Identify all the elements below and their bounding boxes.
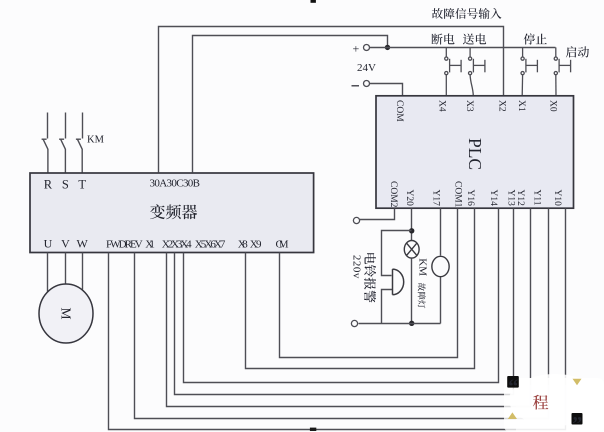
label 故障灯 (fault lamp): [418, 283, 426, 291]
pushbutton 送电 (power on) to X3: [469, 47, 485, 95]
svg-text:Y13: Y13: [506, 190, 516, 207]
wire +24V rail to buttons: [370, 47, 556, 49]
pushbutton 启动 (start) to X0: [554, 47, 570, 95]
svg-text:Y11: Y11: [531, 190, 541, 206]
label 电铃报警 (bell alarm): [365, 253, 376, 264]
svg-text:+: +: [353, 42, 360, 56]
svg-text:COM: COM: [394, 100, 404, 122]
watermark white blob: [504, 378, 604, 432]
wire FWD to Y10: [109, 209, 566, 430]
svg-text:PLC: PLC: [465, 138, 485, 170]
svg-text:X2X3X4: X2X3X4: [162, 239, 192, 251]
svg-text:Y20: Y20: [404, 190, 414, 207]
wire COM2 to 220v terminal: [360, 209, 395, 220]
svg-text:COM2: COM2: [388, 181, 398, 208]
node junction dot on +24V rail: [385, 45, 390, 50]
wire bottom rail: [359, 323, 441, 325]
label 变频器 (inverter): [150, 204, 165, 219]
wire X8 to Y16: [246, 209, 475, 369]
wire X3 to Y13: [175, 209, 514, 395]
svg-text:X9: X9: [250, 239, 262, 251]
watermark 程: [533, 395, 548, 410]
svg-text:X2: X2: [497, 100, 507, 112]
svg-text:U: U: [44, 237, 53, 251]
wire Y20 to lamp: [411, 209, 413, 241]
svg-text:Y10: Y10: [552, 190, 562, 207]
wire X4 to Y14: [184, 209, 499, 383]
svg-text:W: W: [77, 237, 89, 251]
svg-text:S: S: [62, 178, 69, 192]
wire lamp to bottom rail: [411, 259, 413, 324]
svg-text:X0: X0: [548, 100, 558, 112]
wire REV to Y11: [135, 209, 549, 419]
wire bell branch: [382, 231, 412, 324]
220v supply terminal (bottom): [351, 320, 357, 326]
PLC box: [376, 96, 574, 208]
wire R phase supply: [47, 113, 49, 139]
svg-text:X1: X1: [145, 239, 155, 251]
svg-text:30A30C30B: 30A30C30B: [150, 178, 201, 190]
contactor coil KM: [432, 256, 449, 276]
watermark triangle up: [508, 412, 517, 419]
bell 电铃: [393, 269, 404, 295]
wire 30C common to 24V+: [193, 36, 388, 173]
contactor KM main contact T: [76, 139, 82, 173]
motor M: [39, 284, 93, 343]
svg-text:R: R: [44, 178, 53, 192]
watermark close-quote badge: [572, 413, 583, 425]
wire U to motor: [47, 253, 49, 292]
wire T phase supply: [82, 113, 84, 139]
contactor KM main contact R: [42, 139, 48, 173]
svg-text:X5X6X7: X5X6X7: [195, 239, 226, 251]
svg-text:FWDREV: FWDREV: [106, 239, 143, 251]
node junction dot (bottom rail): [409, 321, 414, 326]
wire X2 to Y12: [167, 209, 531, 407]
svg-text:V: V: [61, 237, 70, 251]
wire CM to COM1: [280, 209, 458, 358]
pushbutton 断电 (power off) to X4: [445, 47, 461, 95]
svg-text:”: ”: [572, 413, 582, 432]
wire V to motor: [65, 253, 67, 285]
wire Y17 to KM coil: [440, 209, 442, 324]
24V supply - terminal: [352, 85, 360, 87]
svg-text:COM1: COM1: [453, 181, 463, 208]
svg-text:M: M: [59, 308, 74, 320]
pushbutton 停止 (stop) to X1: [521, 47, 537, 95]
svg-text:“: “: [508, 376, 518, 398]
wire 30A fault signal to PLC X2: [159, 27, 504, 173]
contactor KM main contact S: [59, 139, 65, 173]
watermark black square top: [311, 0, 316, 3]
svg-text:X3: X3: [464, 100, 474, 112]
svg-text:X1: X1: [516, 100, 526, 112]
svg-text:KM: KM: [87, 135, 105, 146]
svg-text:Y17: Y17: [431, 190, 441, 207]
svg-text:Y16: Y16: [465, 190, 475, 207]
wire W to motor: [82, 253, 84, 290]
watermark black square on wire: [310, 428, 316, 431]
watermark triangle down: [573, 379, 582, 385]
wire 24V- to PLC COM: [370, 84, 403, 96]
svg-text:KM: KM: [417, 258, 429, 276]
inverter box 变频器: [30, 173, 314, 253]
220v supply terminal (top): [353, 217, 359, 223]
svg-text:X8: X8: [238, 239, 249, 251]
svg-text:T: T: [78, 178, 86, 192]
wire S phase supply: [65, 113, 67, 139]
svg-text:Y12: Y12: [515, 190, 525, 207]
svg-text:CM: CM: [276, 239, 289, 251]
fault lamp 故障灯: [404, 241, 419, 259]
svg-text:Y14: Y14: [488, 190, 498, 207]
node junction dot (lamp/bell branch): [409, 228, 414, 233]
watermark open-quote badge: [507, 376, 519, 388]
svg-text:220v: 220v: [351, 255, 363, 279]
svg-text:X4: X4: [437, 100, 447, 112]
label 故障信号输入 (fault signal input): [432, 8, 443, 19]
svg-text:24V: 24V: [357, 62, 376, 74]
